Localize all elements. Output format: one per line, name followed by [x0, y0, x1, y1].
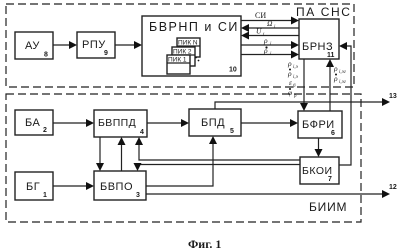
svg-text:β: β: [292, 84, 296, 89]
svg-text:3: 3: [136, 192, 140, 199]
svg-text:10: 10: [229, 67, 237, 74]
svg-text:Фиг. 1: Фиг. 1: [188, 237, 221, 251]
svg-text:8: 8: [44, 52, 48, 59]
svg-text:БВППД: БВППД: [98, 117, 136, 129]
svg-text:ρ: ρ: [333, 64, 338, 73]
svg-text:i,эг: i,эг: [339, 80, 346, 85]
svg-text:β: β: [293, 94, 297, 99]
svg-text:ПИК N: ПИК N: [178, 40, 198, 47]
svg-text:ПИК 1: ПИК 1: [168, 57, 187, 64]
svg-text:13: 13: [389, 93, 397, 100]
svg-text:ρ: ρ: [263, 36, 268, 45]
svg-text:РПУ: РПУ: [82, 39, 106, 51]
svg-text:6: 6: [331, 130, 335, 137]
svg-text:БА: БА: [25, 117, 40, 129]
svg-text:5: 5: [230, 128, 234, 135]
svg-text:9: 9: [104, 50, 108, 57]
svg-text:2: 2: [43, 127, 47, 134]
svg-text:i,э: i,э: [293, 65, 299, 70]
svg-text:БИИМ: БИИМ: [309, 200, 347, 214]
svg-text:12: 12: [389, 184, 397, 191]
svg-text:БГ: БГ: [26, 181, 40, 193]
svg-text:ПА СНС: ПА СНС: [296, 5, 352, 19]
svg-text:СИ: СИ: [255, 11, 266, 20]
svg-text:АУ: АУ: [25, 40, 40, 52]
svg-text:7: 7: [328, 176, 332, 183]
svg-text:ε: ε: [289, 78, 292, 87]
svg-text:БПД: БПД: [201, 117, 225, 129]
svg-text:i,эг: i,эг: [339, 70, 346, 75]
svg-text:БВРНП и СИ: БВРНП и СИ: [149, 20, 239, 34]
svg-text:i,э: i,э: [293, 75, 299, 80]
svg-text:БФРИ: БФРИ: [302, 119, 335, 131]
svg-text:Ω: Ω: [267, 19, 273, 28]
svg-text:11: 11: [327, 52, 335, 59]
svg-text:ρ: ρ: [287, 59, 292, 68]
svg-text:U: U: [256, 27, 262, 36]
svg-text:4: 4: [140, 129, 144, 136]
svg-text:1: 1: [43, 192, 47, 199]
svg-text:БВПО: БВПО: [100, 181, 133, 193]
